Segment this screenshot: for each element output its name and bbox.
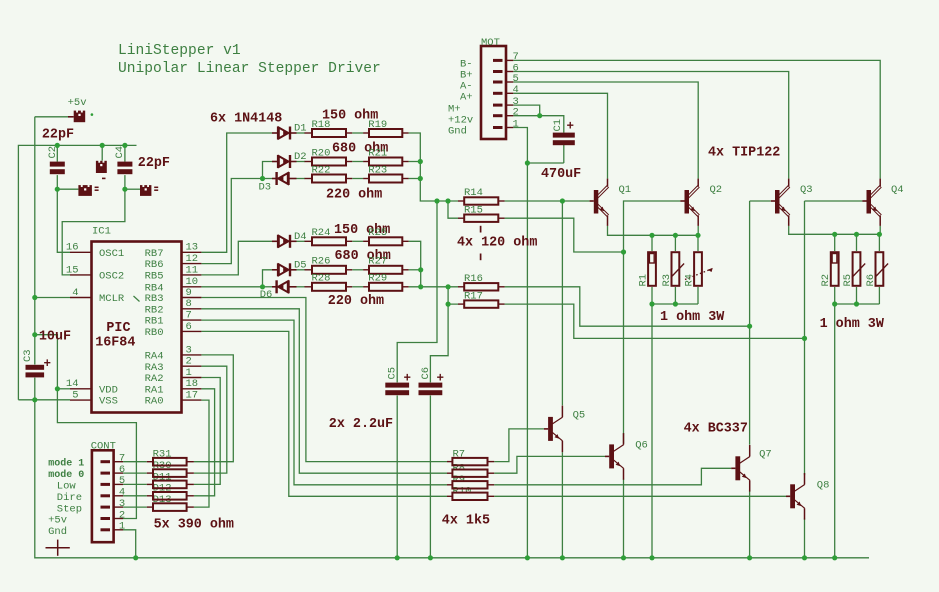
svg-text:7: 7: [119, 453, 125, 465]
svg-text:4x 1k5: 4x 1k5: [442, 514, 490, 529]
svg-text:12: 12: [186, 253, 199, 265]
svg-text:+: +: [404, 372, 412, 386]
svg-text:R10: R10: [453, 486, 472, 498]
svg-text:RA2: RA2: [145, 373, 164, 385]
svg-text:MCLR: MCLR: [99, 293, 125, 305]
svg-text:4x BC337: 4x BC337: [684, 422, 748, 437]
svg-text:1: 1: [186, 367, 192, 379]
svg-text:RB5: RB5: [145, 271, 164, 283]
svg-text:R8: R8: [453, 462, 466, 474]
svg-text:5: 5: [513, 73, 519, 85]
svg-text:R2: R2: [820, 274, 832, 287]
svg-text:R7: R7: [453, 449, 466, 461]
svg-text:RA3: RA3: [145, 362, 164, 374]
svg-text:R25: R25: [368, 227, 387, 239]
svg-text:R24: R24: [312, 227, 331, 239]
svg-text:2x 2.2uF: 2x 2.2uF: [329, 417, 393, 432]
svg-text:1 ohm 3W: 1 ohm 3W: [820, 317, 885, 332]
svg-text:1: 1: [513, 118, 519, 130]
svg-text:4: 4: [513, 84, 519, 96]
svg-text:R31: R31: [153, 449, 172, 461]
svg-text:6: 6: [119, 464, 125, 476]
svg-text:R22: R22: [312, 164, 331, 176]
svg-text:OSC1: OSC1: [99, 248, 124, 260]
svg-text:4: 4: [119, 487, 125, 499]
svg-text:Q4: Q4: [891, 184, 904, 196]
svg-text:R23: R23: [368, 164, 387, 176]
svg-text:+: +: [567, 120, 575, 134]
svg-text:R14: R14: [464, 187, 483, 199]
svg-text:5: 5: [119, 475, 125, 487]
svg-text:R29: R29: [368, 273, 387, 285]
svg-text:RB1: RB1: [145, 316, 164, 328]
svg-text:2: 2: [513, 107, 519, 119]
svg-text:D3: D3: [259, 182, 272, 194]
svg-text:Q1: Q1: [619, 184, 632, 196]
svg-text:R3: R3: [661, 274, 673, 287]
svg-text:6: 6: [186, 321, 192, 333]
svg-text:Q7: Q7: [759, 449, 772, 461]
svg-text:Gnd: Gnd: [48, 526, 67, 538]
svg-text:OSC2: OSC2: [99, 271, 124, 283]
svg-text:4x TIP122: 4x TIP122: [708, 146, 780, 161]
svg-text:D2: D2: [294, 151, 307, 163]
svg-text:4x 120 ohm: 4x 120 ohm: [457, 236, 537, 251]
svg-text:Unipolar Linear Stepper Driver: Unipolar Linear Stepper Driver: [118, 61, 381, 77]
svg-text:R21: R21: [368, 147, 387, 159]
svg-text:R28: R28: [312, 273, 331, 285]
svg-text:3: 3: [119, 498, 125, 510]
svg-text:D1: D1: [294, 123, 307, 135]
svg-text:R4: R4: [684, 274, 696, 287]
svg-text:Q8: Q8: [817, 480, 830, 492]
svg-text:2: 2: [119, 509, 125, 521]
svg-text:Step: Step: [57, 503, 82, 515]
svg-text:Dire: Dire: [57, 492, 82, 504]
svg-text:4: 4: [72, 287, 78, 299]
svg-text:RB2: RB2: [145, 304, 164, 316]
svg-text:RA4: RA4: [145, 351, 164, 363]
svg-text:D5: D5: [294, 259, 307, 271]
svg-text:R18: R18: [312, 119, 331, 131]
svg-text:2: 2: [186, 356, 192, 368]
svg-text:Low: Low: [57, 480, 77, 492]
svg-text:R16: R16: [464, 273, 483, 285]
svg-text:13: 13: [186, 242, 199, 254]
svg-text:+: +: [437, 372, 445, 386]
svg-text:7: 7: [186, 310, 192, 322]
svg-text:C6: C6: [420, 367, 432, 380]
svg-text:+5v: +5v: [48, 515, 67, 527]
svg-text:CONT: CONT: [91, 441, 116, 453]
svg-text:15: 15: [66, 264, 79, 276]
svg-text:R9: R9: [453, 474, 466, 486]
svg-text:8: 8: [186, 298, 192, 310]
svg-text:9: 9: [186, 287, 192, 299]
svg-text:Q3: Q3: [800, 184, 813, 196]
svg-text:R5: R5: [842, 274, 854, 287]
svg-text:IC1: IC1: [92, 226, 111, 238]
svg-text:22pF: 22pF: [42, 128, 74, 143]
svg-text:mode 1: mode 1: [48, 458, 84, 470]
svg-text:D6: D6: [260, 289, 273, 301]
svg-text:14: 14: [66, 378, 79, 390]
svg-text:MOT: MOT: [481, 37, 500, 49]
svg-text:18: 18: [186, 378, 199, 390]
svg-text:+: +: [44, 357, 52, 371]
svg-text:C5: C5: [387, 367, 399, 380]
svg-text:R17: R17: [464, 290, 483, 302]
svg-text:R1: R1: [638, 274, 650, 287]
svg-text:R19: R19: [368, 119, 387, 131]
svg-text:16: 16: [66, 242, 79, 254]
svg-text:D4: D4: [294, 231, 307, 243]
svg-text:5x 390 ohm: 5x 390 ohm: [154, 518, 234, 533]
svg-text:R26: R26: [312, 256, 331, 268]
svg-text:3: 3: [186, 344, 192, 356]
svg-text:17: 17: [186, 390, 199, 402]
svg-text:RB3: RB3: [145, 293, 164, 305]
svg-text:Q5: Q5: [573, 410, 586, 422]
svg-text:RA1: RA1: [145, 384, 164, 396]
svg-text:1 ohm 3W: 1 ohm 3W: [660, 310, 725, 325]
svg-text:VSS: VSS: [99, 396, 118, 408]
svg-text:A+: A+: [460, 92, 473, 104]
svg-text:LiniStepper v1: LiniStepper v1: [118, 43, 241, 59]
svg-text:6x 1N4148: 6x 1N4148: [210, 112, 282, 127]
svg-text:220 ohm: 220 ohm: [326, 188, 382, 203]
svg-text:22pF: 22pF: [138, 156, 170, 171]
svg-text:470uF: 470uF: [541, 167, 581, 182]
svg-text:PIC: PIC: [106, 321, 130, 336]
svg-text:Q6: Q6: [635, 439, 648, 451]
svg-text:+5v: +5v: [68, 97, 87, 109]
svg-text:Q2: Q2: [710, 184, 723, 196]
svg-text:220 ohm: 220 ohm: [328, 294, 384, 309]
svg-text:C1: C1: [552, 119, 564, 132]
svg-text:VDD: VDD: [99, 384, 118, 396]
svg-text:C2: C2: [47, 146, 59, 159]
svg-text:C3: C3: [22, 349, 34, 362]
svg-text:R27: R27: [368, 256, 387, 268]
svg-text:R6: R6: [865, 274, 877, 287]
svg-text:11: 11: [186, 264, 199, 276]
svg-text:RA0: RA0: [145, 396, 164, 408]
svg-text:RB0: RB0: [145, 327, 164, 339]
svg-text:R15: R15: [464, 204, 483, 216]
svg-text:1: 1: [119, 521, 125, 533]
svg-text:C4: C4: [114, 146, 126, 159]
svg-text:mode 0: mode 0: [48, 469, 84, 481]
svg-text:16F84: 16F84: [95, 336, 135, 351]
svg-text:Gnd: Gnd: [448, 126, 467, 138]
svg-text:RB6: RB6: [145, 259, 164, 271]
svg-text:10uF: 10uF: [39, 330, 71, 345]
svg-text:R20: R20: [312, 147, 331, 159]
svg-text:5: 5: [72, 390, 78, 402]
svg-text:RB7: RB7: [145, 248, 164, 260]
